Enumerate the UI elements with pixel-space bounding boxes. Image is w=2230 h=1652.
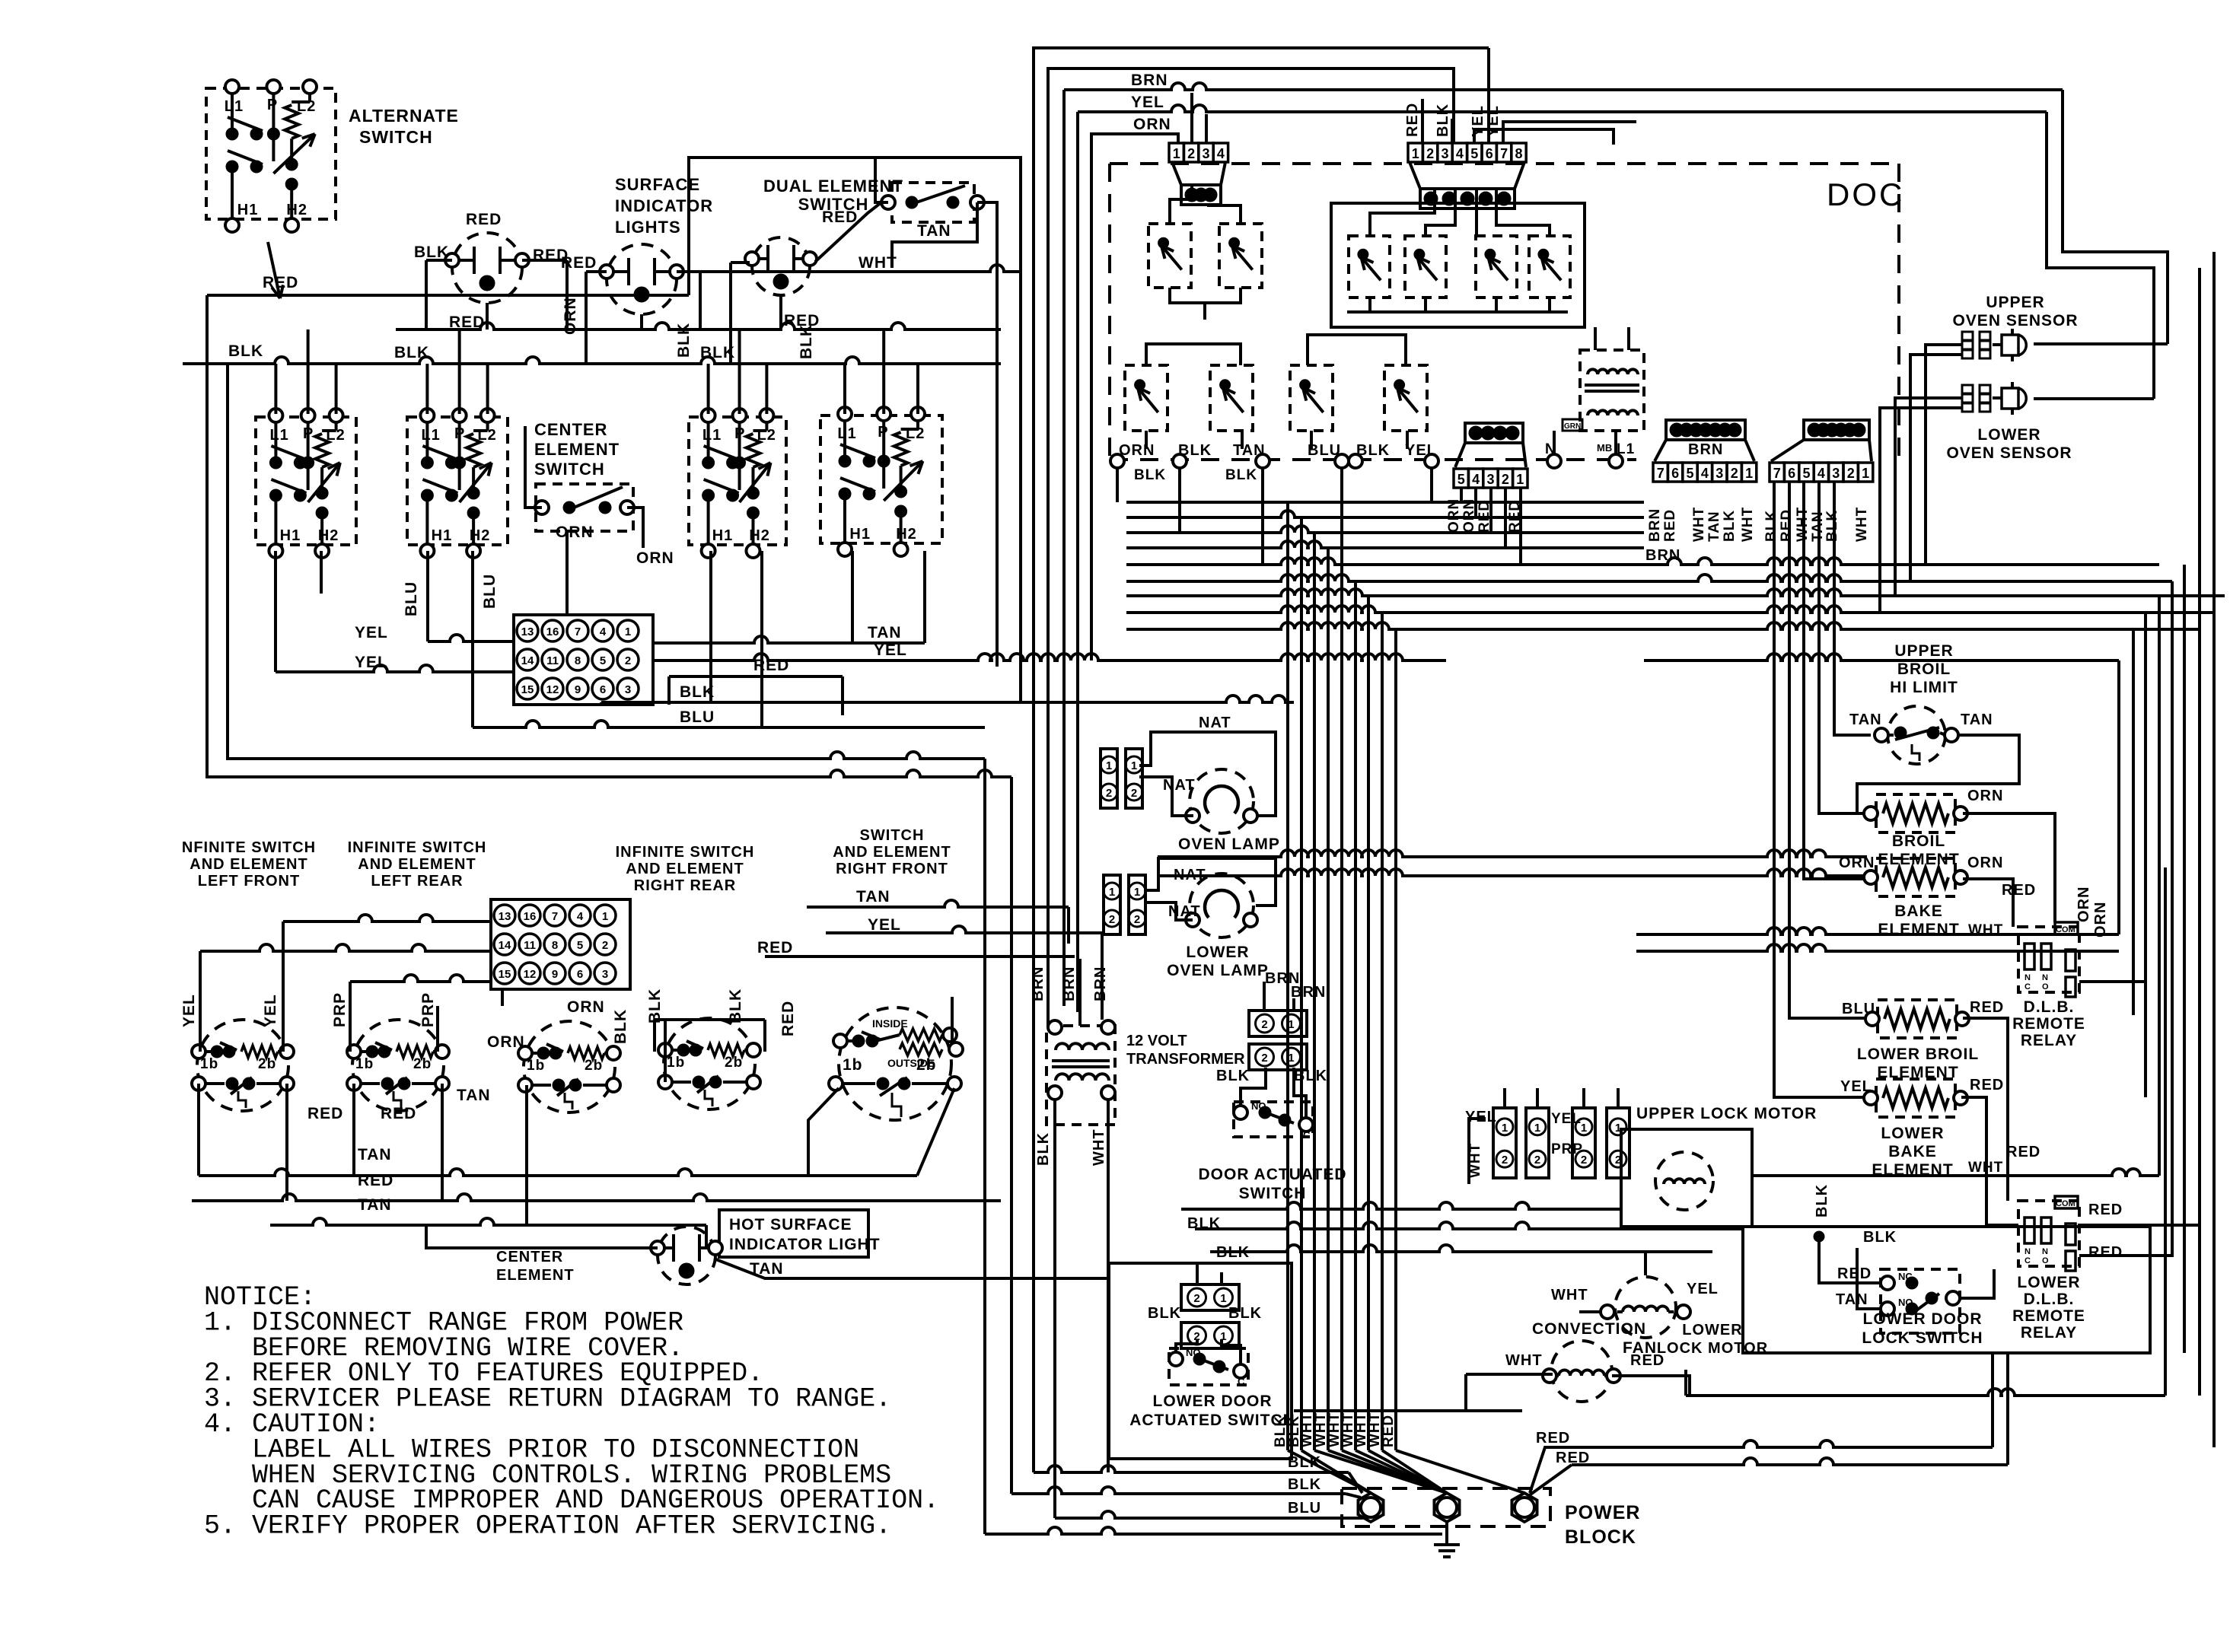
svg-text:INDICATOR: INDICATOR <box>615 196 713 215</box>
svg-text:5. VERIFY PROPER OPERATION AFT: 5. VERIFY PROPER OPERATION AFTER SERVICI… <box>204 1511 891 1542</box>
svg-text:H1: H1 <box>849 526 871 543</box>
svg-text:RED: RED <box>1662 509 1678 542</box>
svg-text:ORN: ORN <box>1119 442 1155 459</box>
svg-text:WHT: WHT <box>1505 1352 1543 1369</box>
svg-text:1: 1 <box>1220 1292 1226 1305</box>
svg-text:DUAL ELEMENT: DUAL ELEMENT <box>763 177 903 196</box>
svg-text:NAT: NAT <box>1174 867 1206 883</box>
svg-text:LOWER: LOWER <box>2017 1274 2080 1291</box>
svg-text:O: O <box>2042 982 2049 992</box>
svg-text:YEL: YEL <box>1840 1078 1872 1095</box>
svg-text:1: 1 <box>1745 466 1753 481</box>
svg-text:BLK: BLK <box>1824 510 1840 542</box>
svg-text:YEL: YEL <box>868 916 901 934</box>
svg-text:BLK: BLK <box>1863 1229 1897 1246</box>
svg-text:BLK: BLK <box>1225 467 1257 483</box>
svg-text:NAT: NAT <box>1163 777 1196 794</box>
svg-text:OVEN LAMP: OVEN LAMP <box>1167 962 1269 979</box>
svg-text:1b: 1b <box>667 1055 685 1071</box>
svg-text:7: 7 <box>1657 466 1665 481</box>
svg-text:6: 6 <box>1671 466 1679 481</box>
svg-text:RED: RED <box>381 1105 416 1122</box>
svg-text:1: 1 <box>1173 146 1180 161</box>
svg-text:ORN: ORN <box>2075 886 2092 922</box>
svg-text:BLK: BLK <box>1763 510 1779 542</box>
svg-text:2b: 2b <box>725 1055 743 1071</box>
svg-text:RED: RED <box>2088 1202 2123 1218</box>
svg-text:4: 4 <box>1472 472 1480 487</box>
svg-text:13: 13 <box>499 910 511 923</box>
svg-text:N: N <box>2042 1247 2048 1256</box>
svg-text:NFINITE SWITCH: NFINITE SWITCH <box>182 839 316 856</box>
svg-text:1: 1 <box>602 910 608 923</box>
svg-text:2: 2 <box>1615 1154 1621 1167</box>
svg-text:LOCK SWITCH: LOCK SWITCH <box>1862 1329 1983 1347</box>
svg-text:5: 5 <box>600 654 606 667</box>
svg-text:YEL: YEL <box>262 994 279 1027</box>
svg-text:RED: RED <box>1970 999 2004 1016</box>
svg-text:C: C <box>1238 1376 1245 1387</box>
svg-text:1: 1 <box>1581 1122 1587 1135</box>
svg-text:DOC: DOC <box>1827 177 1904 212</box>
svg-text:TAN: TAN <box>358 1146 392 1163</box>
svg-text:MB: MB <box>1597 442 1612 454</box>
svg-text:RED: RED <box>1837 1265 1872 1282</box>
svg-text:TAN: TAN <box>1706 511 1722 542</box>
svg-text:LOWER: LOWER <box>1977 426 2040 444</box>
svg-text:SWITCH: SWITCH <box>860 827 925 844</box>
svg-text:2: 2 <box>1261 1018 1267 1031</box>
svg-text:ORN: ORN <box>556 524 594 541</box>
svg-text:2b: 2b <box>258 1056 276 1072</box>
svg-text:O: O <box>2042 1256 2049 1265</box>
svg-text:ORN: ORN <box>567 998 605 1016</box>
svg-text:RED: RED <box>1536 1430 1570 1447</box>
svg-text:H2: H2 <box>749 527 770 544</box>
svg-text:BRN: BRN <box>1030 966 1047 1001</box>
svg-text:2: 2 <box>1502 472 1509 487</box>
svg-text:OVEN LAMP: OVEN LAMP <box>1178 836 1280 853</box>
svg-text:RELAY: RELAY <box>2021 1324 2077 1342</box>
svg-text:3: 3 <box>1202 146 1209 161</box>
svg-text:13: 13 <box>521 625 534 638</box>
svg-text:LEFT REAR: LEFT REAR <box>371 873 463 890</box>
svg-text:3: 3 <box>1441 146 1448 161</box>
svg-text:BRN: BRN <box>1291 984 1326 1001</box>
svg-text:1b: 1b <box>200 1056 218 1072</box>
svg-text:BLK: BLK <box>1228 1305 1262 1322</box>
svg-text:BLK: BLK <box>612 1009 629 1044</box>
svg-text:YEL: YEL <box>355 654 388 671</box>
svg-text:2: 2 <box>1134 913 1140 926</box>
svg-text:UPPER LOCK MOTOR: UPPER LOCK MOTOR <box>1636 1105 1817 1122</box>
svg-text:RED: RED <box>757 939 793 957</box>
svg-text:1: 1 <box>1106 759 1112 772</box>
svg-text:INFINITE SWITCH: INFINITE SWITCH <box>348 839 487 856</box>
svg-text:NAT: NAT <box>1199 715 1231 731</box>
svg-text:GRN: GRN <box>1564 422 1581 431</box>
svg-text:L1: L1 <box>269 427 288 444</box>
svg-text:RED: RED <box>2002 882 2036 899</box>
svg-text:BRN: BRN <box>1645 547 1680 564</box>
svg-text:LIGHTS: LIGHTS <box>615 218 681 237</box>
svg-text:BAKE: BAKE <box>1888 1143 1937 1160</box>
svg-text:ORN: ORN <box>1133 116 1171 133</box>
svg-text:8: 8 <box>575 654 581 667</box>
svg-text:SWITCH: SWITCH <box>359 127 433 147</box>
svg-text:AND ELEMENT: AND ELEMENT <box>833 844 951 861</box>
svg-text:AND ELEMENT: AND ELEMENT <box>190 856 307 873</box>
svg-text:BLK: BLK <box>1722 510 1738 542</box>
svg-text:12 VOLT: 12 VOLT <box>1126 1033 1187 1049</box>
svg-text:H2: H2 <box>318 527 339 544</box>
svg-text:PRP: PRP <box>331 992 349 1027</box>
svg-text:BAKE: BAKE <box>1894 902 1943 920</box>
svg-text:2: 2 <box>1502 1154 1508 1167</box>
svg-text:5: 5 <box>1686 466 1693 481</box>
svg-text:WHT: WHT <box>1091 1128 1107 1166</box>
svg-text:BLK: BLK <box>680 683 715 701</box>
svg-text:1: 1 <box>1288 1052 1294 1065</box>
svg-text:1: 1 <box>1412 146 1419 161</box>
svg-text:4: 4 <box>600 625 607 638</box>
svg-text:PRP: PRP <box>1551 1141 1583 1157</box>
svg-text:H2: H2 <box>286 202 307 218</box>
svg-text:2b: 2b <box>585 1058 603 1074</box>
svg-text:L1: L1 <box>225 98 244 115</box>
svg-text:RED: RED <box>263 274 298 291</box>
svg-text:2: 2 <box>1731 466 1738 481</box>
svg-text:L1: L1 <box>421 427 440 444</box>
svg-text:CENTER: CENTER <box>496 1249 563 1265</box>
svg-text:1: 1 <box>1502 1122 1508 1135</box>
svg-text:NAT: NAT <box>1168 903 1201 920</box>
svg-text:11: 11 <box>524 939 536 952</box>
svg-text:REMOTE: REMOTE <box>2012 1015 2085 1033</box>
svg-text:BLK: BLK <box>675 323 693 358</box>
svg-text:BLOCK: BLOCK <box>1565 1526 1636 1548</box>
svg-text:1: 1 <box>1288 1018 1294 1031</box>
svg-text:2: 2 <box>602 939 608 952</box>
svg-text:ELEMENT: ELEMENT <box>534 440 620 459</box>
svg-text:INFINITE SWITCH: INFINITE SWITCH <box>616 844 755 861</box>
svg-text:RIGHT REAR: RIGHT REAR <box>634 877 736 894</box>
svg-text:WHT: WHT <box>1854 507 1870 542</box>
svg-text:RED: RED <box>1381 1415 1397 1447</box>
svg-text:D.L.B.: D.L.B. <box>2024 998 2075 1016</box>
svg-text:RED: RED <box>307 1105 343 1122</box>
svg-text:6: 6 <box>600 683 606 696</box>
svg-text:AND ELEMENT: AND ELEMENT <box>626 861 744 877</box>
svg-text:15: 15 <box>521 683 534 696</box>
svg-text:2: 2 <box>1426 146 1434 161</box>
svg-text:ORN: ORN <box>1967 855 2003 871</box>
svg-text:BLK: BLK <box>1035 1132 1052 1166</box>
svg-text:RED: RED <box>822 208 858 226</box>
svg-text:H2: H2 <box>470 527 491 544</box>
svg-text:CONVECTION: CONVECTION <box>1532 1320 1646 1338</box>
svg-text:BLU: BLU <box>1288 1500 1321 1517</box>
svg-text:4: 4 <box>577 910 584 923</box>
svg-text:BLK: BLK <box>1288 1454 1321 1471</box>
svg-text:BLK: BLK <box>1148 1305 1181 1322</box>
svg-text:ORN: ORN <box>1967 788 2003 804</box>
svg-text:5: 5 <box>1470 146 1478 161</box>
svg-text:8: 8 <box>552 939 558 952</box>
svg-text:3: 3 <box>602 968 608 981</box>
svg-text:2: 2 <box>1193 1292 1199 1305</box>
svg-text:RED: RED <box>1970 1077 2004 1093</box>
svg-text:BLK: BLK <box>228 342 263 360</box>
svg-text:RED: RED <box>1779 509 1795 542</box>
svg-text:1: 1 <box>1862 466 1869 481</box>
svg-text:HI LIMIT: HI LIMIT <box>1890 679 1958 696</box>
svg-text:4: 4 <box>1701 466 1709 481</box>
svg-text:SWITCH: SWITCH <box>534 460 605 479</box>
svg-text:TAN: TAN <box>856 888 890 906</box>
svg-text:OVEN SENSOR: OVEN SENSOR <box>1952 312 2078 329</box>
svg-text:LOWER BROIL: LOWER BROIL <box>1857 1046 1979 1063</box>
svg-text:AND ELEMENT: AND ELEMENT <box>358 856 476 873</box>
svg-text:RED: RED <box>2088 1244 2123 1261</box>
svg-text:9: 9 <box>552 968 558 981</box>
svg-text:6: 6 <box>577 968 583 981</box>
svg-text:1: 1 <box>1131 759 1137 772</box>
svg-text:BRN: BRN <box>1131 72 1168 89</box>
svg-text:6: 6 <box>1788 466 1795 481</box>
svg-text:4: 4 <box>1456 146 1464 161</box>
svg-text:7: 7 <box>552 910 558 923</box>
svg-text:BLK: BLK <box>394 344 429 361</box>
svg-text:LOWER DOOR: LOWER DOOR <box>1863 1310 1983 1328</box>
svg-text:BRN: BRN <box>1688 441 1723 458</box>
svg-text:LOWER: LOWER <box>1186 944 1249 961</box>
svg-text:UPPER: UPPER <box>1986 294 2044 311</box>
svg-text:TAN: TAN <box>1961 711 1993 728</box>
svg-text:1: 1 <box>625 625 631 638</box>
svg-text:2: 2 <box>1109 913 1115 926</box>
svg-text:2: 2 <box>1261 1052 1267 1065</box>
svg-text:2: 2 <box>1106 787 1112 800</box>
svg-text:PRP: PRP <box>419 992 437 1027</box>
svg-text:WHT: WHT <box>1740 507 1756 542</box>
svg-text:COM: COM <box>2056 1199 2075 1208</box>
svg-text:1b: 1b <box>355 1056 374 1072</box>
svg-text:BLK: BLK <box>1814 1184 1830 1218</box>
svg-text:SWITCH: SWITCH <box>1239 1185 1307 1202</box>
svg-text:TAN: TAN <box>1849 711 1882 728</box>
svg-text:1b: 1b <box>527 1058 545 1074</box>
svg-text:OVEN SENSOR: OVEN SENSOR <box>1946 444 2072 462</box>
svg-text:RED: RED <box>784 312 820 329</box>
svg-text:7: 7 <box>575 625 581 638</box>
svg-text:1: 1 <box>1134 886 1140 899</box>
svg-text:5: 5 <box>1802 466 1810 481</box>
svg-text:H2: H2 <box>896 526 917 543</box>
svg-text:LOWER: LOWER <box>1682 1322 1742 1338</box>
svg-text:BLU: BLU <box>1842 1001 1875 1017</box>
svg-text:1b: 1b <box>843 1056 863 1074</box>
svg-text:DOOR ACTUATED: DOOR ACTUATED <box>1199 1166 1347 1183</box>
svg-text:YEL: YEL <box>1131 94 1164 111</box>
svg-text:UPPER: UPPER <box>1894 642 1953 660</box>
svg-text:REMOTE: REMOTE <box>2012 1307 2085 1325</box>
svg-text:RELAY: RELAY <box>2021 1032 2077 1049</box>
svg-text:16: 16 <box>546 625 559 638</box>
svg-text:ACTUATED SWITCH: ACTUATED SWITCH <box>1129 1412 1295 1429</box>
svg-text:1: 1 <box>1615 1122 1621 1135</box>
svg-text:2b: 2b <box>413 1056 432 1072</box>
svg-text:3: 3 <box>1486 472 1494 487</box>
svg-text:RED: RED <box>466 211 502 228</box>
svg-text:BRN: BRN <box>1061 966 1078 1001</box>
svg-text:BLK: BLK <box>1134 467 1166 483</box>
svg-text:ELEMENT: ELEMENT <box>496 1267 575 1284</box>
svg-text:9: 9 <box>575 683 581 696</box>
svg-text:WHT: WHT <box>1551 1287 1588 1303</box>
svg-text:N: N <box>2025 1247 2031 1256</box>
svg-text:BROIL: BROIL <box>1897 660 1951 678</box>
svg-text:BRN: BRN <box>1092 966 1109 1001</box>
svg-text:D.L.B.: D.L.B. <box>2024 1291 2075 1308</box>
svg-text:L1: L1 <box>702 427 722 444</box>
svg-text:3: 3 <box>1716 466 1723 481</box>
svg-text:TRANSFORMER: TRANSFORMER <box>1126 1051 1245 1068</box>
svg-text:LEFT FRONT: LEFT FRONT <box>198 873 300 890</box>
svg-text:2: 2 <box>1131 787 1137 800</box>
svg-text:ORN: ORN <box>487 1033 525 1051</box>
svg-text:RED: RED <box>2006 1144 2040 1160</box>
svg-text:N: N <box>2025 973 2031 982</box>
svg-text:2b: 2b <box>916 1056 937 1074</box>
svg-text:YEL: YEL <box>874 641 907 659</box>
svg-text:TAN: TAN <box>917 222 951 240</box>
svg-text:7: 7 <box>1773 466 1781 481</box>
svg-text:4: 4 <box>1817 466 1825 481</box>
svg-text:TAN: TAN <box>1836 1291 1868 1308</box>
svg-text:2: 2 <box>1187 146 1195 161</box>
svg-text:BLU: BLU <box>481 574 499 609</box>
svg-text:BLK: BLK <box>1294 1068 1327 1084</box>
svg-text:ORN: ORN <box>636 549 674 567</box>
svg-text:ORN: ORN <box>2092 902 2109 937</box>
svg-text:RIGHT FRONT: RIGHT FRONT <box>836 861 948 877</box>
svg-text:6: 6 <box>1486 146 1493 161</box>
svg-text:1: 1 <box>1534 1122 1540 1135</box>
svg-text:BLK: BLK <box>1435 103 1451 137</box>
svg-text:5: 5 <box>1457 472 1465 487</box>
svg-text:H1: H1 <box>432 527 453 544</box>
svg-text:2: 2 <box>1847 466 1855 481</box>
svg-text:3: 3 <box>1832 466 1840 481</box>
svg-text:14: 14 <box>499 939 511 952</box>
svg-text:4: 4 <box>1217 146 1225 161</box>
svg-text:BLK: BLK <box>1288 1476 1321 1493</box>
svg-text:CENTER: CENTER <box>534 420 607 439</box>
svg-text:BROIL: BROIL <box>1892 832 1945 850</box>
svg-text:YEL: YEL <box>1687 1281 1719 1297</box>
svg-text:2: 2 <box>1581 1154 1587 1167</box>
svg-text:H1: H1 <box>280 527 301 544</box>
svg-text:2: 2 <box>1534 1154 1540 1167</box>
svg-text:POWER: POWER <box>1565 1502 1640 1523</box>
svg-text:7: 7 <box>1500 146 1508 161</box>
svg-text:RED: RED <box>779 1001 797 1036</box>
svg-text:C: C <box>2025 1256 2031 1265</box>
svg-text:5: 5 <box>577 939 583 952</box>
svg-text:C: C <box>1303 1129 1311 1141</box>
svg-text:BLU: BLU <box>403 581 420 616</box>
svg-text:H1: H1 <box>712 527 734 544</box>
svg-text:LOWER DOOR: LOWER DOOR <box>1153 1393 1273 1410</box>
svg-text:TAN: TAN <box>868 624 902 641</box>
svg-text:RED: RED <box>1404 103 1421 137</box>
svg-text:WHT: WHT <box>1691 507 1707 542</box>
svg-text:BLK: BLK <box>414 244 449 261</box>
svg-text:8: 8 <box>1515 146 1522 161</box>
svg-text:3: 3 <box>625 683 631 696</box>
svg-text:ALTERNATE: ALTERNATE <box>349 106 459 126</box>
svg-text:YEL: YEL <box>180 994 198 1027</box>
svg-text:L1: L1 <box>837 425 856 442</box>
svg-text:BLU: BLU <box>680 708 715 726</box>
svg-text:14: 14 <box>521 654 534 667</box>
svg-text:TAN: TAN <box>457 1087 491 1104</box>
svg-text:2: 2 <box>625 654 631 667</box>
svg-text:12: 12 <box>546 683 559 696</box>
svg-text:16: 16 <box>524 910 537 923</box>
svg-text:HOT SURFACE: HOT SURFACE <box>729 1216 852 1233</box>
svg-text:TAN: TAN <box>358 1196 392 1214</box>
svg-text:BRN: BRN <box>1647 508 1663 542</box>
svg-text:1: 1 <box>1516 472 1524 487</box>
svg-text:INDICATOR LIGHT: INDICATOR LIGHT <box>729 1236 881 1253</box>
svg-text:H1: H1 <box>237 202 259 218</box>
svg-text:12: 12 <box>524 968 537 981</box>
svg-text:11: 11 <box>546 654 559 667</box>
svg-text:N: N <box>2042 973 2048 982</box>
svg-text:1: 1 <box>1109 886 1115 899</box>
svg-text:15: 15 <box>499 968 511 981</box>
svg-text:YEL: YEL <box>1470 105 1486 137</box>
svg-text:BLK: BLK <box>1216 1068 1250 1084</box>
svg-text:C: C <box>2025 982 2031 992</box>
svg-text:LOWER: LOWER <box>1881 1125 1944 1142</box>
svg-text:YEL: YEL <box>355 624 388 641</box>
